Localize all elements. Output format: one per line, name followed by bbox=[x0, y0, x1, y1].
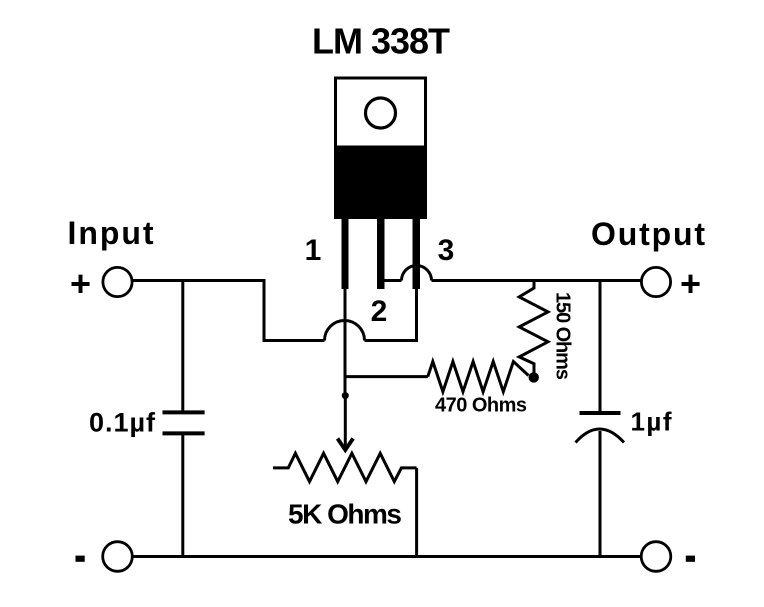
wire to pin 3 bbox=[365, 287, 417, 341]
svg-text:470 Ohms: 470 Ohms bbox=[435, 395, 527, 417]
svg-text:0.1µf: 0.1µf bbox=[89, 408, 156, 438]
svg-text:+: + bbox=[680, 263, 701, 304]
svg-text:150 Ohms: 150 Ohms bbox=[552, 292, 574, 380]
wire adjust pin horizontal to R2 bbox=[344, 375, 428, 378]
regulator U1 leg pin 2 bbox=[377, 219, 385, 289]
wire output capacitor branch bbox=[599, 279, 602, 411]
svg-text:1µf: 1µf bbox=[631, 407, 672, 437]
capacitor C1 0.1uf plates bbox=[163, 412, 205, 433]
regulator U1 tab bbox=[336, 78, 426, 147]
wire pin 1 down bbox=[344, 287, 347, 395]
potentiometer R3 5K Ohms zigzag bbox=[273, 453, 417, 481]
wire hop over pin1 wire bbox=[325, 321, 365, 341]
svg-text:1: 1 bbox=[305, 234, 322, 267]
resistor R2 470 Ohms zigzag bbox=[428, 362, 529, 392]
wire input capacitor branch bbox=[181, 279, 184, 411]
regulator U1 leg pin 1 bbox=[342, 219, 349, 289]
input + terminal bbox=[103, 267, 132, 296]
wire capacitor C1 to ground rail bbox=[181, 435, 184, 557]
wire capacitor C2 to ground rail bbox=[599, 431, 602, 557]
wire bottom ground rail bbox=[133, 555, 641, 558]
wire input+ horizontal to jog bbox=[133, 281, 325, 341]
regulator U1 leg pin 3 bbox=[413, 219, 421, 289]
svg-text:3: 3 bbox=[438, 234, 455, 267]
regulator U1 mounting hole bbox=[366, 98, 396, 128]
input - polarity bbox=[76, 556, 85, 562]
wiper arrow shaft bbox=[344, 396, 347, 448]
resistor R1 150 Ohms zigzag bbox=[519, 279, 548, 375]
junction dot wiper bbox=[342, 392, 349, 399]
capacitor C2 1uf top plate bbox=[580, 411, 621, 415]
regulator U1 body bbox=[334, 147, 427, 219]
input - terminal bbox=[103, 542, 133, 572]
output - terminal bbox=[641, 542, 671, 572]
svg-text:+: + bbox=[70, 263, 91, 304]
svg-text:5K Ohms: 5K Ohms bbox=[288, 499, 402, 530]
wire potentiometer to ground rail bbox=[415, 468, 418, 557]
wire pin 2 to hop bbox=[382, 279, 402, 282]
svg-text:Output: Output bbox=[591, 216, 705, 252]
wiper arrowhead bbox=[338, 439, 354, 451]
junction dot R1 R2 bbox=[529, 372, 539, 382]
wire hop over pin 3 leg bbox=[402, 266, 432, 281]
svg-text:2: 2 bbox=[371, 295, 388, 328]
output - polarity bbox=[686, 556, 695, 562]
output + terminal bbox=[641, 267, 670, 296]
svg-text:LM 338T: LM 338T bbox=[312, 21, 450, 62]
wire to output terminal bbox=[432, 279, 642, 282]
capacitor C2 1uf curved plate bbox=[576, 429, 625, 443]
